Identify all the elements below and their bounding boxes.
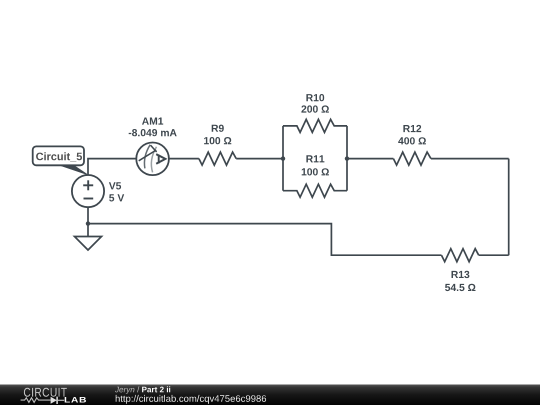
CircuitLab logo	[21, 388, 86, 404]
footer title text Jeryn / Part 2 ii	[115, 386, 170, 394]
wire right side vertical down	[508, 159, 510, 256]
value 200 ohm	[301, 105, 329, 112]
wire R9 to parallel block left node	[236, 158, 283, 160]
wire parallel block right vertical	[346, 126, 348, 191]
footer bar	[0, 385, 540, 405]
label R11	[306, 155, 324, 162]
wire bottom rail from R13 back to ground node	[88, 224, 442, 256]
value 400 ohm	[398, 137, 426, 144]
wire right node to resistor R12	[347, 158, 393, 160]
minus sign	[84, 198, 94, 200]
wire from V5 top terminal up and right to ammeter AM1	[88, 159, 136, 175]
label R10	[306, 94, 324, 101]
resistor R12 400 ohm	[393, 125, 431, 165]
value 54.5 ohm	[445, 284, 476, 291]
wire V5 bottom terminal to ground node	[87, 207, 89, 224]
node name callout Circuit_5	[33, 146, 87, 174]
label R12	[403, 125, 421, 132]
resistor R9 100 ohm	[199, 125, 236, 166]
wire parallel block left vertical	[282, 126, 284, 191]
value 5 V	[109, 194, 124, 201]
label R13	[452, 271, 470, 278]
node junction at V5 bottom / ground	[86, 221, 90, 225]
node name text Circuit_5	[36, 152, 82, 161]
voltage source V5 5 V	[72, 175, 124, 207]
value 100 ohm	[302, 168, 329, 175]
value 100 ohm	[204, 137, 231, 144]
ground	[75, 224, 102, 250]
label R9	[212, 125, 224, 132]
ammeter AM1 (-8.049 mA)	[129, 118, 177, 176]
source circle	[72, 175, 104, 207]
value -8.049 mA	[129, 129, 177, 136]
resistor R13 54.5 ohm	[442, 249, 479, 291]
resistor R10 200 ohm (top branch)	[283, 94, 347, 132]
wire ammeter AM1 to resistor R9	[169, 158, 199, 160]
wire R12 right to top-right corner	[431, 158, 509, 160]
resistor R11 100 ohm (bottom branch)	[283, 155, 347, 197]
wire bottom-right corner to R13	[479, 254, 509, 256]
plus sign	[83, 184, 93, 186]
label V5	[109, 182, 121, 189]
footer url text	[116, 395, 266, 404]
node junction left of parallel block	[281, 156, 285, 160]
node junction right of parallel block	[345, 156, 349, 160]
label AM1	[142, 118, 163, 125]
